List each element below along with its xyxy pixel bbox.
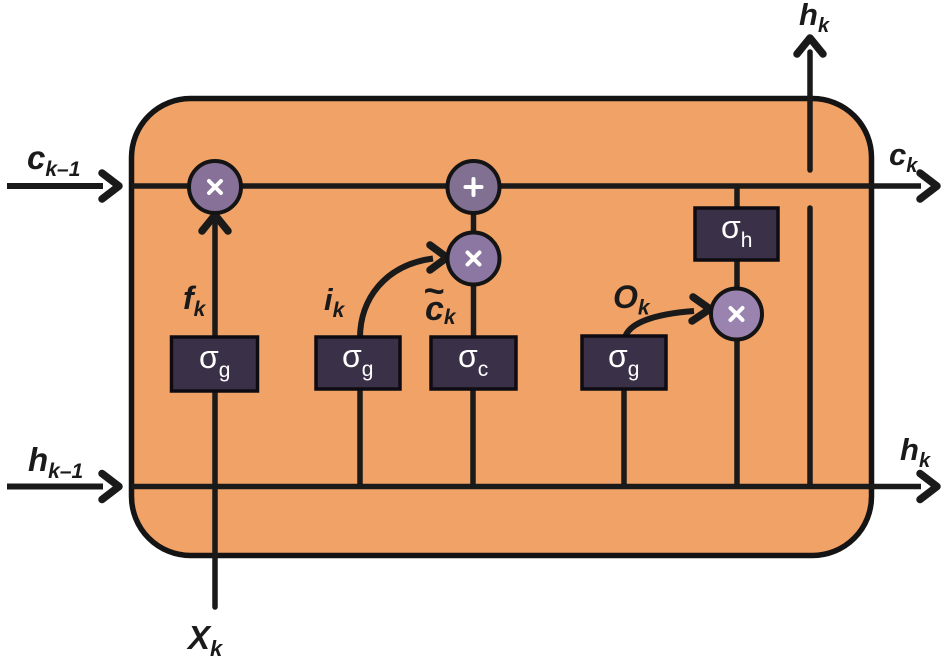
wire: candidate gate sigma_c to multiply M2 (471, 286, 477, 337)
multiply node M2 (candidate x input) (448, 233, 500, 285)
arrowhead: c_k output (920, 173, 937, 199)
wire: input gate curve to multiply node M2 (360, 259, 433, 339)
multiply node M3 (output) (711, 289, 762, 340)
svg-text:hk–1: hk–1 (28, 441, 83, 483)
wire: cell-state input c_k-1 (7, 183, 103, 189)
svg-text:Xk: Xk (186, 619, 224, 656)
wire: candidate gate lower segment (470, 390, 476, 486)
gate box sigma_g (forget) (172, 337, 258, 391)
gate box sigma_h (output activation) (695, 208, 778, 260)
wire: input gate lower segment (357, 390, 363, 486)
svg-text:ck: ck (889, 137, 918, 177)
LSTM cell body (132, 99, 872, 556)
wire: output gate curve to multiply node M3 (625, 311, 694, 338)
wire: hidden state line across (h) (132, 484, 922, 490)
wire: output gate lower segment (621, 390, 627, 486)
arrowhead: h_k-1 input (102, 474, 119, 500)
wire: multiply M2 to add node (471, 212, 477, 234)
multiply node M1 (forget) (189, 161, 241, 213)
arrowhead: into multiply node M2 (430, 245, 447, 270)
svg-text:ck–1: ck–1 (27, 139, 80, 181)
gate box sigma_g (input) (316, 337, 400, 389)
gate box sigma_c (candidate) (431, 337, 516, 389)
wire: h_k up line upper segment (807, 52, 813, 170)
wire: cell state line across (c) (132, 183, 922, 189)
wire: hidden-state input h_k-1 (7, 484, 103, 490)
svg-text:hk: hk (799, 0, 830, 37)
arrowhead: into multiply node M3 (692, 297, 710, 321)
wire: tap from c line down to sigma_h (734, 186, 740, 210)
svg-text:hk: hk (900, 432, 931, 472)
arrowhead: h_k top output (797, 38, 823, 54)
wire: multiply node M3 down to h line (734, 338, 740, 486)
arrowhead: h_k right output (920, 474, 937, 500)
gate box sigma_g (output) (582, 336, 666, 389)
wire: sigma_h to multiply node M3 (734, 259, 740, 291)
arrowhead: c_k-1 input (102, 173, 119, 199)
arrowhead: into multiply node M1 (202, 215, 228, 231)
wire: h_k up line lower segment (jumps over c line) (807, 208, 813, 486)
add node (cell update) (448, 161, 500, 213)
wire: input X_k vertical through forget gate (212, 220, 218, 607)
